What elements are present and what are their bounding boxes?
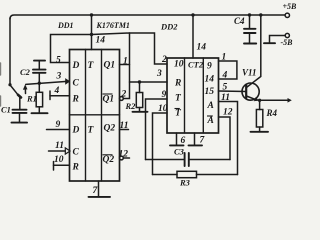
wire pins 1-4 bracket: [219, 61, 237, 79]
svg-text:12: 12: [119, 150, 129, 160]
svg-text:11: 11: [55, 141, 64, 151]
svg-text:V11: V11: [242, 68, 257, 78]
svg-text:R: R: [72, 163, 79, 173]
node junction C2/R1: [38, 82, 41, 85]
svg-text:4: 4: [54, 86, 60, 96]
node dot rail DD1: [90, 13, 93, 16]
resistor R2: [139, 82, 141, 93]
svg-text:D: D: [72, 61, 80, 71]
node -5V terminal: [285, 33, 289, 37]
wire output with arrow: [260, 99, 288, 101]
svg-text:A: A: [207, 116, 214, 126]
svg-text:DD1: DD1: [57, 21, 74, 30]
svg-text:9: 9: [162, 90, 167, 100]
node dot collector rail: [259, 13, 262, 16]
svg-text:3: 3: [56, 72, 62, 82]
svg-text:11: 11: [120, 121, 129, 131]
ground under R2: [133, 111, 148, 113]
op-amp DD1 box: [70, 50, 120, 182]
wire pin 14 DD2: [192, 15, 194, 58]
svg-text:Q2: Q2: [104, 124, 116, 134]
pin 6 ground DD2: [176, 133, 178, 145]
svg-text:К176ТМ1: К176ТМ1: [96, 21, 130, 30]
svg-text:C: C: [73, 148, 80, 158]
wire inner rail continuation: [92, 33, 130, 35]
pin 12 bubble Q2bar: [120, 156, 124, 160]
svg-text:10: 10: [174, 60, 184, 70]
svg-text:R3: R3: [179, 178, 191, 188]
svg-text:15: 15: [205, 87, 215, 97]
wire to pin 3: [26, 82, 65, 85]
svg-text:10: 10: [158, 104, 168, 114]
svg-text:D: D: [72, 126, 80, 136]
wire pin 11 A: [219, 102, 238, 175]
wire left vertical drop: [9, 18, 11, 85]
capacitor C2: [38, 73, 40, 83]
svg-text:9: 9: [56, 120, 61, 130]
pin 4 stub: [49, 91, 51, 100]
pin 11 stub DD1: [49, 150, 66, 152]
svg-text:-5В: -5В: [281, 38, 294, 47]
svg-text:DD2: DD2: [160, 22, 178, 32]
svg-text:4: 4: [222, 71, 228, 81]
svg-text:C3: C3: [174, 147, 185, 157]
emitter with arrow: [246, 96, 256, 100]
pin 10 stub DD1: [53, 162, 55, 171]
pin 7 ground DD1: [98, 181, 100, 197]
svg-text:6: 6: [181, 136, 186, 146]
overline Abar inner: [207, 115, 213, 117]
wire pin 12 Abar: [219, 117, 231, 160]
ground under R4: [251, 131, 269, 133]
node +5V terminal: [285, 13, 289, 17]
node dot C4: [248, 13, 251, 16]
op-amp DD2 box: [167, 58, 219, 133]
node dot pin14 inner: [90, 33, 93, 36]
svg-text:9: 9: [207, 62, 212, 72]
resistor R1: [38, 83, 40, 92]
capacitor C1: [19, 98, 21, 109]
node emitter junction: [258, 99, 261, 102]
touch arrow E: [23, 84, 28, 90]
svg-text:14: 14: [96, 36, 106, 46]
wire -5V: [270, 36, 286, 43]
svg-text:C1: C1: [1, 105, 11, 115]
svg-text:Q1: Q1: [103, 95, 115, 105]
pin 3 stub DD2: [130, 81, 168, 83]
wire pin 9 T to C3: [146, 99, 168, 160]
wire pin 5 to inner rail: [51, 35, 92, 63]
svg-text:C: C: [73, 79, 80, 89]
overline Q2bar: [103, 154, 113, 156]
svg-text:R2: R2: [125, 101, 137, 111]
svg-text:R: R: [174, 79, 181, 89]
svg-text:2: 2: [121, 90, 127, 100]
svg-text:5: 5: [56, 56, 61, 66]
svg-text:+5В: +5В: [283, 2, 298, 11]
svg-text:12: 12: [223, 108, 233, 118]
svg-text:A: A: [207, 101, 214, 111]
resistor R3: [153, 174, 178, 176]
pin 2 bubble: [120, 97, 124, 101]
scan artifact left edge: [0, 63, 2, 75]
transistor V11: [242, 83, 259, 100]
svg-text:14: 14: [205, 75, 215, 85]
svg-text:CT2: CT2: [188, 60, 204, 70]
svg-text:Q2: Q2: [103, 155, 115, 165]
svg-text:3: 3: [156, 69, 162, 79]
svg-text:2: 2: [161, 55, 167, 65]
pin 1 stub: [120, 64, 130, 66]
svg-text:C4: C4: [234, 16, 245, 26]
wire pin2 to DD2 pin2 bridge: [123, 33, 167, 99]
overline Q1bar: [103, 93, 113, 95]
svg-text:Q1: Q1: [104, 61, 116, 71]
svg-text:1: 1: [222, 53, 227, 63]
wire pin 10 Tbar to R3: [153, 113, 168, 175]
svg-text:R1: R1: [26, 94, 37, 104]
pin 3 dynamic input arrow: [65, 78, 70, 85]
pin 9 stub DD1: [47, 129, 70, 131]
svg-text:14: 14: [197, 43, 207, 53]
svg-text:10: 10: [54, 155, 64, 165]
pin 7 ground DD2: [194, 133, 196, 145]
wire top +5V rail: [10, 15, 285, 19]
capacitor C4: [249, 15, 251, 28]
wire pin 14 DD1: [91, 15, 93, 50]
svg-text:1: 1: [123, 57, 128, 67]
wire collector: [246, 15, 260, 88]
svg-text:5: 5: [223, 83, 228, 93]
svg-text:11: 11: [221, 93, 230, 103]
node R2: [138, 80, 141, 83]
svg-text:R: R: [72, 95, 79, 105]
ground under R1: [32, 112, 48, 114]
pin 13 stub Q2: [120, 129, 129, 131]
wire pin 5 to base: [219, 90, 247, 93]
node junction left: [8, 83, 11, 86]
capacitor C3: [146, 159, 185, 161]
switch blade SA: [11, 86, 19, 95]
overline Tbar inner: [175, 108, 180, 110]
ground under C1: [12, 122, 28, 124]
resistor R4: [259, 100, 261, 109]
node dot rail DD2: [191, 13, 194, 16]
svg-text:C2: C2: [20, 67, 31, 77]
ground under C4: [244, 43, 256, 45]
svg-text:R4: R4: [266, 108, 278, 118]
